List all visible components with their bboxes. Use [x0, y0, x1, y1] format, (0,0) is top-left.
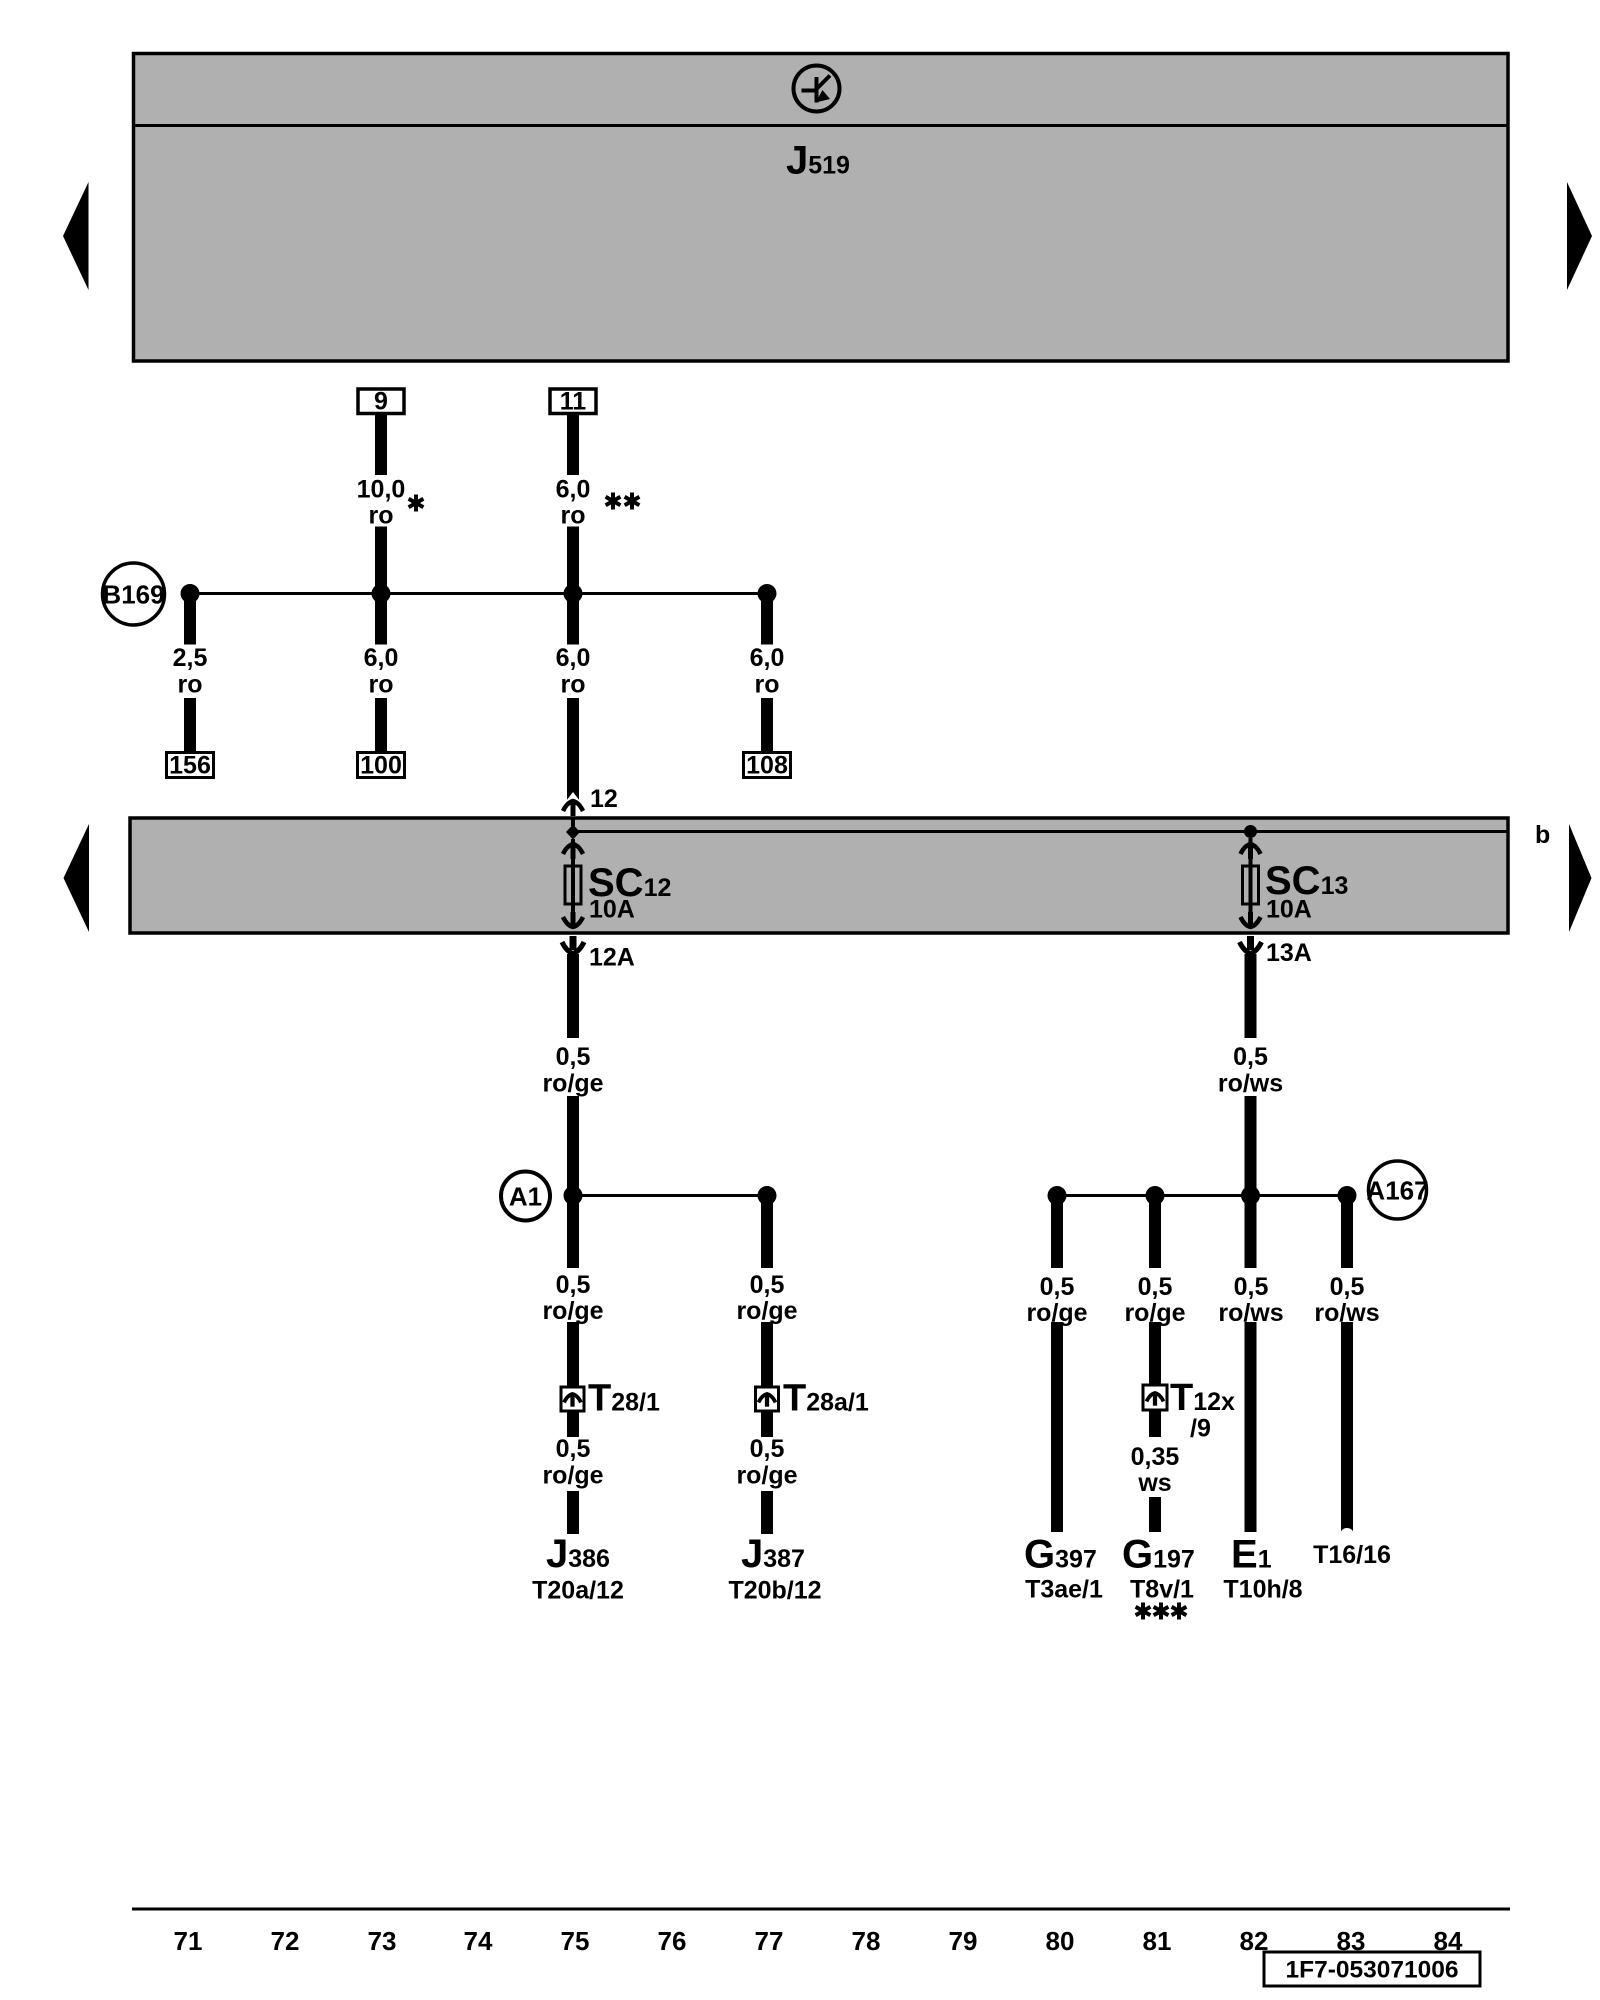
svg-text:156: 156: [169, 752, 211, 780]
svg-text:6,0: 6,0: [556, 644, 591, 672]
svg-text:ro: ro: [561, 671, 586, 699]
svg-text:11: 11: [560, 388, 587, 416]
svg-text:ro/ge: ro/ge: [542, 1070, 603, 1098]
svg-text:81: 81: [1143, 1926, 1172, 1956]
svg-text:74: 74: [464, 1926, 493, 1956]
svg-text:ro/ge: ro/ge: [542, 1462, 603, 1490]
svg-text:73: 73: [368, 1926, 397, 1956]
svg-text:ro/ws: ro/ws: [1218, 1070, 1283, 1098]
svg-text:ro: ro: [178, 671, 203, 699]
svg-text:6,0: 6,0: [556, 476, 591, 504]
svg-text:12: 12: [590, 785, 618, 813]
svg-text:9: 9: [374, 388, 388, 416]
svg-text:71: 71: [174, 1926, 203, 1956]
svg-text:0,5: 0,5: [750, 1435, 785, 1463]
svg-text:0,5: 0,5: [1233, 1043, 1268, 1071]
svg-text:0,5: 0,5: [1234, 1273, 1269, 1301]
svg-text:ro: ro: [755, 671, 780, 699]
svg-text:0,5: 0,5: [556, 1271, 591, 1299]
svg-text:ro: ro: [561, 502, 586, 530]
svg-text:13A: 13A: [1266, 939, 1312, 967]
svg-text:T3ae/1: T3ae/1: [1025, 1576, 1103, 1604]
svg-text:b: b: [1535, 821, 1550, 849]
svg-text:A167: A167: [1366, 1176, 1428, 1206]
svg-text:100: 100: [360, 752, 402, 780]
svg-text:76: 76: [658, 1926, 687, 1956]
svg-text:A1: A1: [509, 1182, 542, 1212]
svg-text:108: 108: [746, 752, 788, 780]
svg-text:0,35: 0,35: [1131, 1443, 1180, 1471]
svg-text:10A: 10A: [589, 896, 635, 924]
svg-text:ro/ge: ro/ge: [736, 1297, 797, 1325]
svg-text:78: 78: [852, 1926, 881, 1956]
svg-text:77: 77: [755, 1926, 784, 1956]
svg-text:/9: /9: [1190, 1415, 1211, 1443]
svg-text:ro: ro: [369, 671, 394, 699]
svg-text:ro/ge: ro/ge: [542, 1297, 603, 1325]
svg-text:2,5: 2,5: [173, 644, 208, 672]
svg-text:10A: 10A: [1266, 896, 1312, 924]
svg-text:72: 72: [271, 1926, 300, 1956]
svg-text:ws: ws: [1137, 1469, 1171, 1497]
svg-text:B169: B169: [102, 580, 164, 610]
svg-text:0,5: 0,5: [1138, 1273, 1173, 1301]
svg-text:12A: 12A: [589, 944, 635, 972]
svg-text:T8v/1: T8v/1: [1130, 1576, 1194, 1604]
svg-text:0,5: 0,5: [556, 1435, 591, 1463]
svg-text:80: 80: [1046, 1926, 1075, 1956]
svg-text:ro/ge: ro/ge: [736, 1462, 797, 1490]
svg-text:T20b/12: T20b/12: [728, 1577, 821, 1605]
svg-text:6,0: 6,0: [750, 644, 785, 672]
svg-text:0,5: 0,5: [556, 1043, 591, 1071]
svg-text:0,5: 0,5: [1040, 1273, 1075, 1301]
svg-text:6,0: 6,0: [364, 644, 399, 672]
svg-text:0,5: 0,5: [750, 1271, 785, 1299]
svg-text:0,5: 0,5: [1330, 1273, 1365, 1301]
svg-text:1F7-053071006: 1F7-053071006: [1285, 1957, 1458, 1984]
svg-text:T20a/12: T20a/12: [532, 1577, 624, 1605]
svg-text:79: 79: [949, 1926, 978, 1956]
svg-text:ro: ro: [369, 502, 394, 530]
svg-text:T16/16: T16/16: [1313, 1541, 1391, 1569]
svg-text:T10h/8: T10h/8: [1223, 1576, 1302, 1604]
svg-text:10,0: 10,0: [357, 476, 406, 504]
svg-text:75: 75: [561, 1926, 590, 1956]
